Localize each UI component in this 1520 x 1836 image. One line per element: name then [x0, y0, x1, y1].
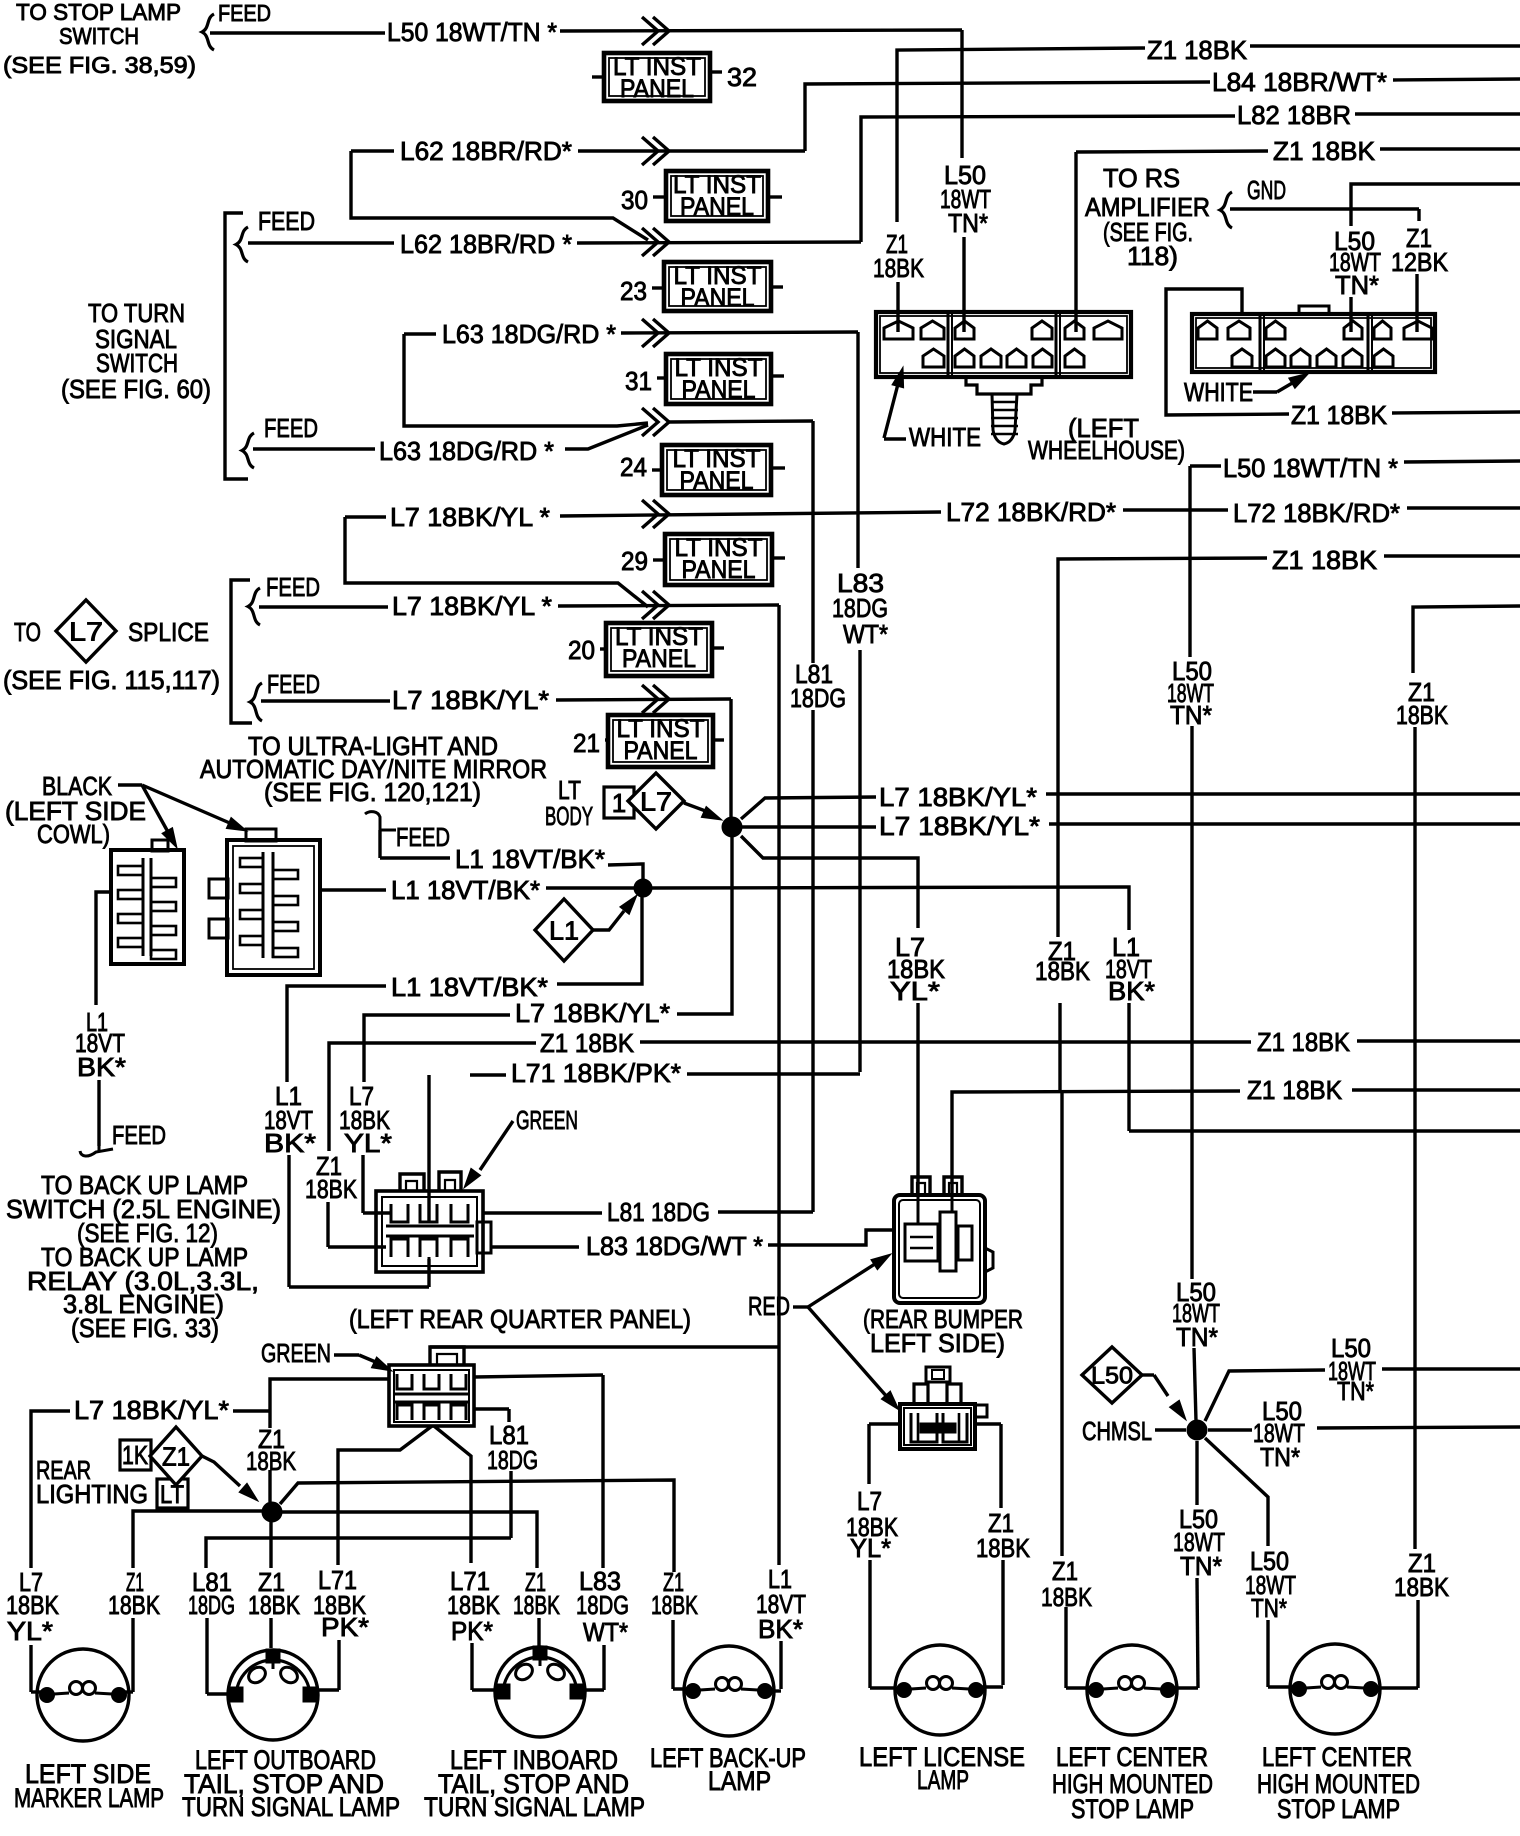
svg-text:18DG: 18DG: [487, 1445, 538, 1475]
svg-text:WT*: WT*: [843, 619, 888, 649]
svg-text:PANEL: PANEL: [620, 75, 694, 103]
svg-text:(LEFT REAR QUARTER PANEL): (LEFT REAR QUARTER PANEL): [349, 1304, 691, 1334]
svg-text:L7: L7: [69, 616, 103, 646]
svg-text:Z1: Z1: [162, 1441, 190, 1471]
svg-text:PANEL: PANEL: [682, 376, 756, 404]
svg-text:TO: TO: [14, 617, 41, 647]
svg-text:PANEL: PANEL: [680, 193, 754, 221]
svg-text:BK*: BK*: [758, 1614, 803, 1644]
svg-text:YL*: YL*: [7, 1616, 53, 1646]
svg-text:PANEL: PANEL: [622, 645, 696, 673]
svg-text:L71 18BK/PK*: L71 18BK/PK*: [511, 1058, 681, 1088]
svg-text:30: 30: [621, 185, 648, 215]
svg-text:YL*: YL*: [850, 1533, 891, 1563]
svg-text:LIGHTING: LIGHTING: [36, 1479, 148, 1509]
svg-text:L72 18BK/RD*: L72 18BK/RD*: [1233, 498, 1400, 528]
svg-text:PANEL: PANEL: [624, 737, 698, 765]
svg-text:L63 18DG/RD *: L63 18DG/RD *: [442, 319, 616, 349]
svg-text:WHITE: WHITE: [909, 422, 981, 452]
svg-text:STOP LAMP: STOP LAMP: [1277, 1794, 1400, 1824]
svg-text:TN*: TN*: [1337, 1376, 1374, 1406]
svg-text:FEED: FEED: [267, 669, 320, 699]
svg-text:STOP LAMP: STOP LAMP: [1071, 1794, 1194, 1824]
svg-text:L7 18BK/YL *: L7 18BK/YL *: [390, 502, 550, 532]
svg-text:GREEN: GREEN: [261, 1338, 331, 1368]
svg-text:(SEE FIG. 60): (SEE FIG. 60): [61, 374, 211, 404]
svg-text:L7 18BK/YL*: L7 18BK/YL*: [879, 782, 1037, 812]
svg-text:CHMSL: CHMSL: [1082, 1416, 1152, 1446]
svg-text:SPLICE: SPLICE: [128, 617, 209, 647]
svg-text:L82 18BR: L82 18BR: [1237, 100, 1351, 130]
svg-text:12BK: 12BK: [1391, 247, 1449, 277]
svg-text:L1: L1: [549, 915, 579, 945]
svg-text:21: 21: [573, 728, 600, 758]
svg-text:FEED: FEED: [396, 822, 450, 852]
svg-text:LT: LT: [160, 1481, 184, 1509]
svg-text:18DG: 18DG: [188, 1590, 235, 1620]
svg-text:L81 18DG: L81 18DG: [607, 1197, 710, 1227]
svg-text:LEFT CENTER: LEFT CENTER: [1056, 1742, 1208, 1772]
svg-text:L50 18WT/TN *: L50 18WT/TN *: [387, 17, 557, 47]
svg-text:TN*: TN*: [1180, 1551, 1222, 1581]
svg-text:TN*: TN*: [1170, 700, 1212, 730]
svg-text:BK*: BK*: [1108, 976, 1155, 1006]
svg-text:(SEE FIG. 115,117): (SEE FIG. 115,117): [3, 665, 220, 695]
svg-text:TN*: TN*: [948, 208, 988, 238]
svg-text:BK*: BK*: [77, 1052, 126, 1082]
svg-text:L83 18DG/WT *: L83 18DG/WT *: [586, 1231, 763, 1261]
svg-text:GND: GND: [1247, 175, 1286, 205]
svg-text:FEED: FEED: [266, 572, 320, 602]
svg-text:TN*: TN*: [1335, 270, 1379, 300]
svg-text:18BK: 18BK: [1394, 1572, 1450, 1602]
svg-text:L7 18BK/YL*: L7 18BK/YL*: [392, 685, 549, 715]
svg-text:18BK: 18BK: [873, 253, 925, 283]
svg-text:Z1 18BK: Z1 18BK: [540, 1028, 635, 1058]
svg-text:18DG: 18DG: [576, 1590, 629, 1620]
svg-text:MARKER LAMP: MARKER LAMP: [14, 1783, 164, 1813]
svg-text:Z1 18BK: Z1 18BK: [1247, 1075, 1343, 1105]
svg-text:FEED: FEED: [218, 0, 271, 26]
svg-text:23: 23: [620, 276, 647, 306]
svg-text:18BK: 18BK: [976, 1533, 1031, 1563]
svg-text:20: 20: [568, 635, 595, 665]
svg-text:WHITE: WHITE: [1184, 377, 1253, 407]
svg-text:TN*: TN*: [1251, 1593, 1287, 1623]
svg-text:GREEN: GREEN: [516, 1105, 578, 1135]
svg-text:FEED: FEED: [264, 413, 318, 443]
svg-text:L62 18BR/RD *: L62 18BR/RD *: [400, 229, 572, 259]
svg-text:24: 24: [620, 452, 647, 482]
svg-text:TO STOP LAMP: TO STOP LAMP: [16, 0, 181, 25]
svg-text:LEFT SIDE): LEFT SIDE): [870, 1328, 1005, 1358]
svg-text:YL*: YL*: [890, 976, 940, 1006]
svg-text:L1 18VT/BK*: L1 18VT/BK*: [455, 844, 605, 874]
svg-text:BODY: BODY: [545, 801, 593, 831]
svg-text:FEED: FEED: [258, 206, 315, 236]
svg-text:18BK: 18BK: [1035, 956, 1091, 986]
svg-text:YL*: YL*: [344, 1128, 392, 1158]
svg-text:18BK: 18BK: [513, 1590, 560, 1620]
svg-text:WHEELHOUSE): WHEELHOUSE): [1028, 435, 1185, 465]
svg-text:18DG: 18DG: [790, 683, 846, 713]
svg-text:PK*: PK*: [321, 1612, 369, 1642]
svg-text:L63 18DG/RD *: L63 18DG/RD *: [379, 436, 554, 466]
svg-text:L72 18BK/RD*: L72 18BK/RD*: [946, 497, 1116, 527]
svg-text:L62 18BR/RD*: L62 18BR/RD*: [400, 136, 572, 166]
svg-text:TN*: TN*: [1260, 1442, 1300, 1472]
svg-text:FEED: FEED: [112, 1120, 166, 1150]
svg-text:TO RS: TO RS: [1103, 163, 1180, 193]
svg-text:PANEL: PANEL: [680, 467, 754, 495]
svg-text:(SEE FIG. 120,121): (SEE FIG. 120,121): [264, 777, 481, 807]
svg-text:18BK: 18BK: [248, 1590, 301, 1620]
svg-text:31: 31: [625, 366, 652, 396]
svg-text:Z1 18BK: Z1 18BK: [1273, 136, 1376, 166]
svg-text:PK*: PK*: [451, 1616, 493, 1646]
svg-text:29: 29: [621, 546, 648, 576]
svg-text:L7 18BK/YL*: L7 18BK/YL*: [515, 998, 670, 1028]
svg-text:18BK: 18BK: [651, 1590, 698, 1620]
svg-text:L50 18WT/TN *: L50 18WT/TN *: [1223, 453, 1398, 483]
svg-text:BK*: BK*: [264, 1128, 316, 1158]
svg-text:TN*: TN*: [1176, 1322, 1218, 1352]
svg-text:COWL): COWL): [37, 819, 110, 849]
svg-text:(SEE FIG. 33): (SEE FIG. 33): [71, 1313, 219, 1343]
svg-text:L50: L50: [1091, 1363, 1133, 1390]
svg-text:1K: 1K: [122, 1440, 149, 1470]
svg-text:LAMP: LAMP: [917, 1765, 969, 1795]
svg-text:TURN SIGNAL LAMP: TURN SIGNAL LAMP: [424, 1792, 645, 1822]
svg-text:118): 118): [1127, 241, 1178, 271]
svg-text:WT*: WT*: [583, 1617, 628, 1647]
svg-text:18BK: 18BK: [305, 1174, 358, 1204]
svg-text:18BK: 18BK: [1396, 700, 1449, 730]
svg-text:L1 18VT/BK*: L1 18VT/BK*: [391, 875, 540, 905]
svg-text:L7: L7: [640, 786, 672, 816]
svg-text:LEFT CENTER: LEFT CENTER: [1262, 1742, 1412, 1772]
svg-text:TURN SIGNAL LAMP: TURN SIGNAL LAMP: [182, 1792, 400, 1822]
svg-text:RED: RED: [748, 1291, 790, 1321]
svg-text:PANEL: PANEL: [682, 556, 756, 584]
svg-text:L84 18BR/WT*: L84 18BR/WT*: [1212, 67, 1387, 97]
svg-text:LAMP: LAMP: [708, 1766, 771, 1796]
svg-text:18BK: 18BK: [108, 1590, 161, 1620]
svg-text:Z1 18BK: Z1 18BK: [1147, 35, 1248, 65]
svg-text:PANEL: PANEL: [681, 284, 755, 312]
svg-text:SWITCH: SWITCH: [59, 23, 139, 49]
svg-text:L7 18BK/YL *: L7 18BK/YL *: [392, 591, 552, 621]
svg-text:1: 1: [612, 788, 626, 818]
svg-text:(SEE FIG. 38,59): (SEE FIG. 38,59): [3, 52, 196, 78]
svg-text:32: 32: [727, 62, 757, 92]
svg-text:Z1 18BK: Z1 18BK: [1272, 545, 1378, 575]
svg-text:Z1 18BK: Z1 18BK: [1291, 400, 1388, 430]
svg-text:L7 18BK/YL*: L7 18BK/YL*: [879, 811, 1040, 841]
svg-text:Z1 18BK: Z1 18BK: [1257, 1027, 1351, 1057]
svg-text:L7 18BK/YL*: L7 18BK/YL*: [74, 1395, 229, 1425]
